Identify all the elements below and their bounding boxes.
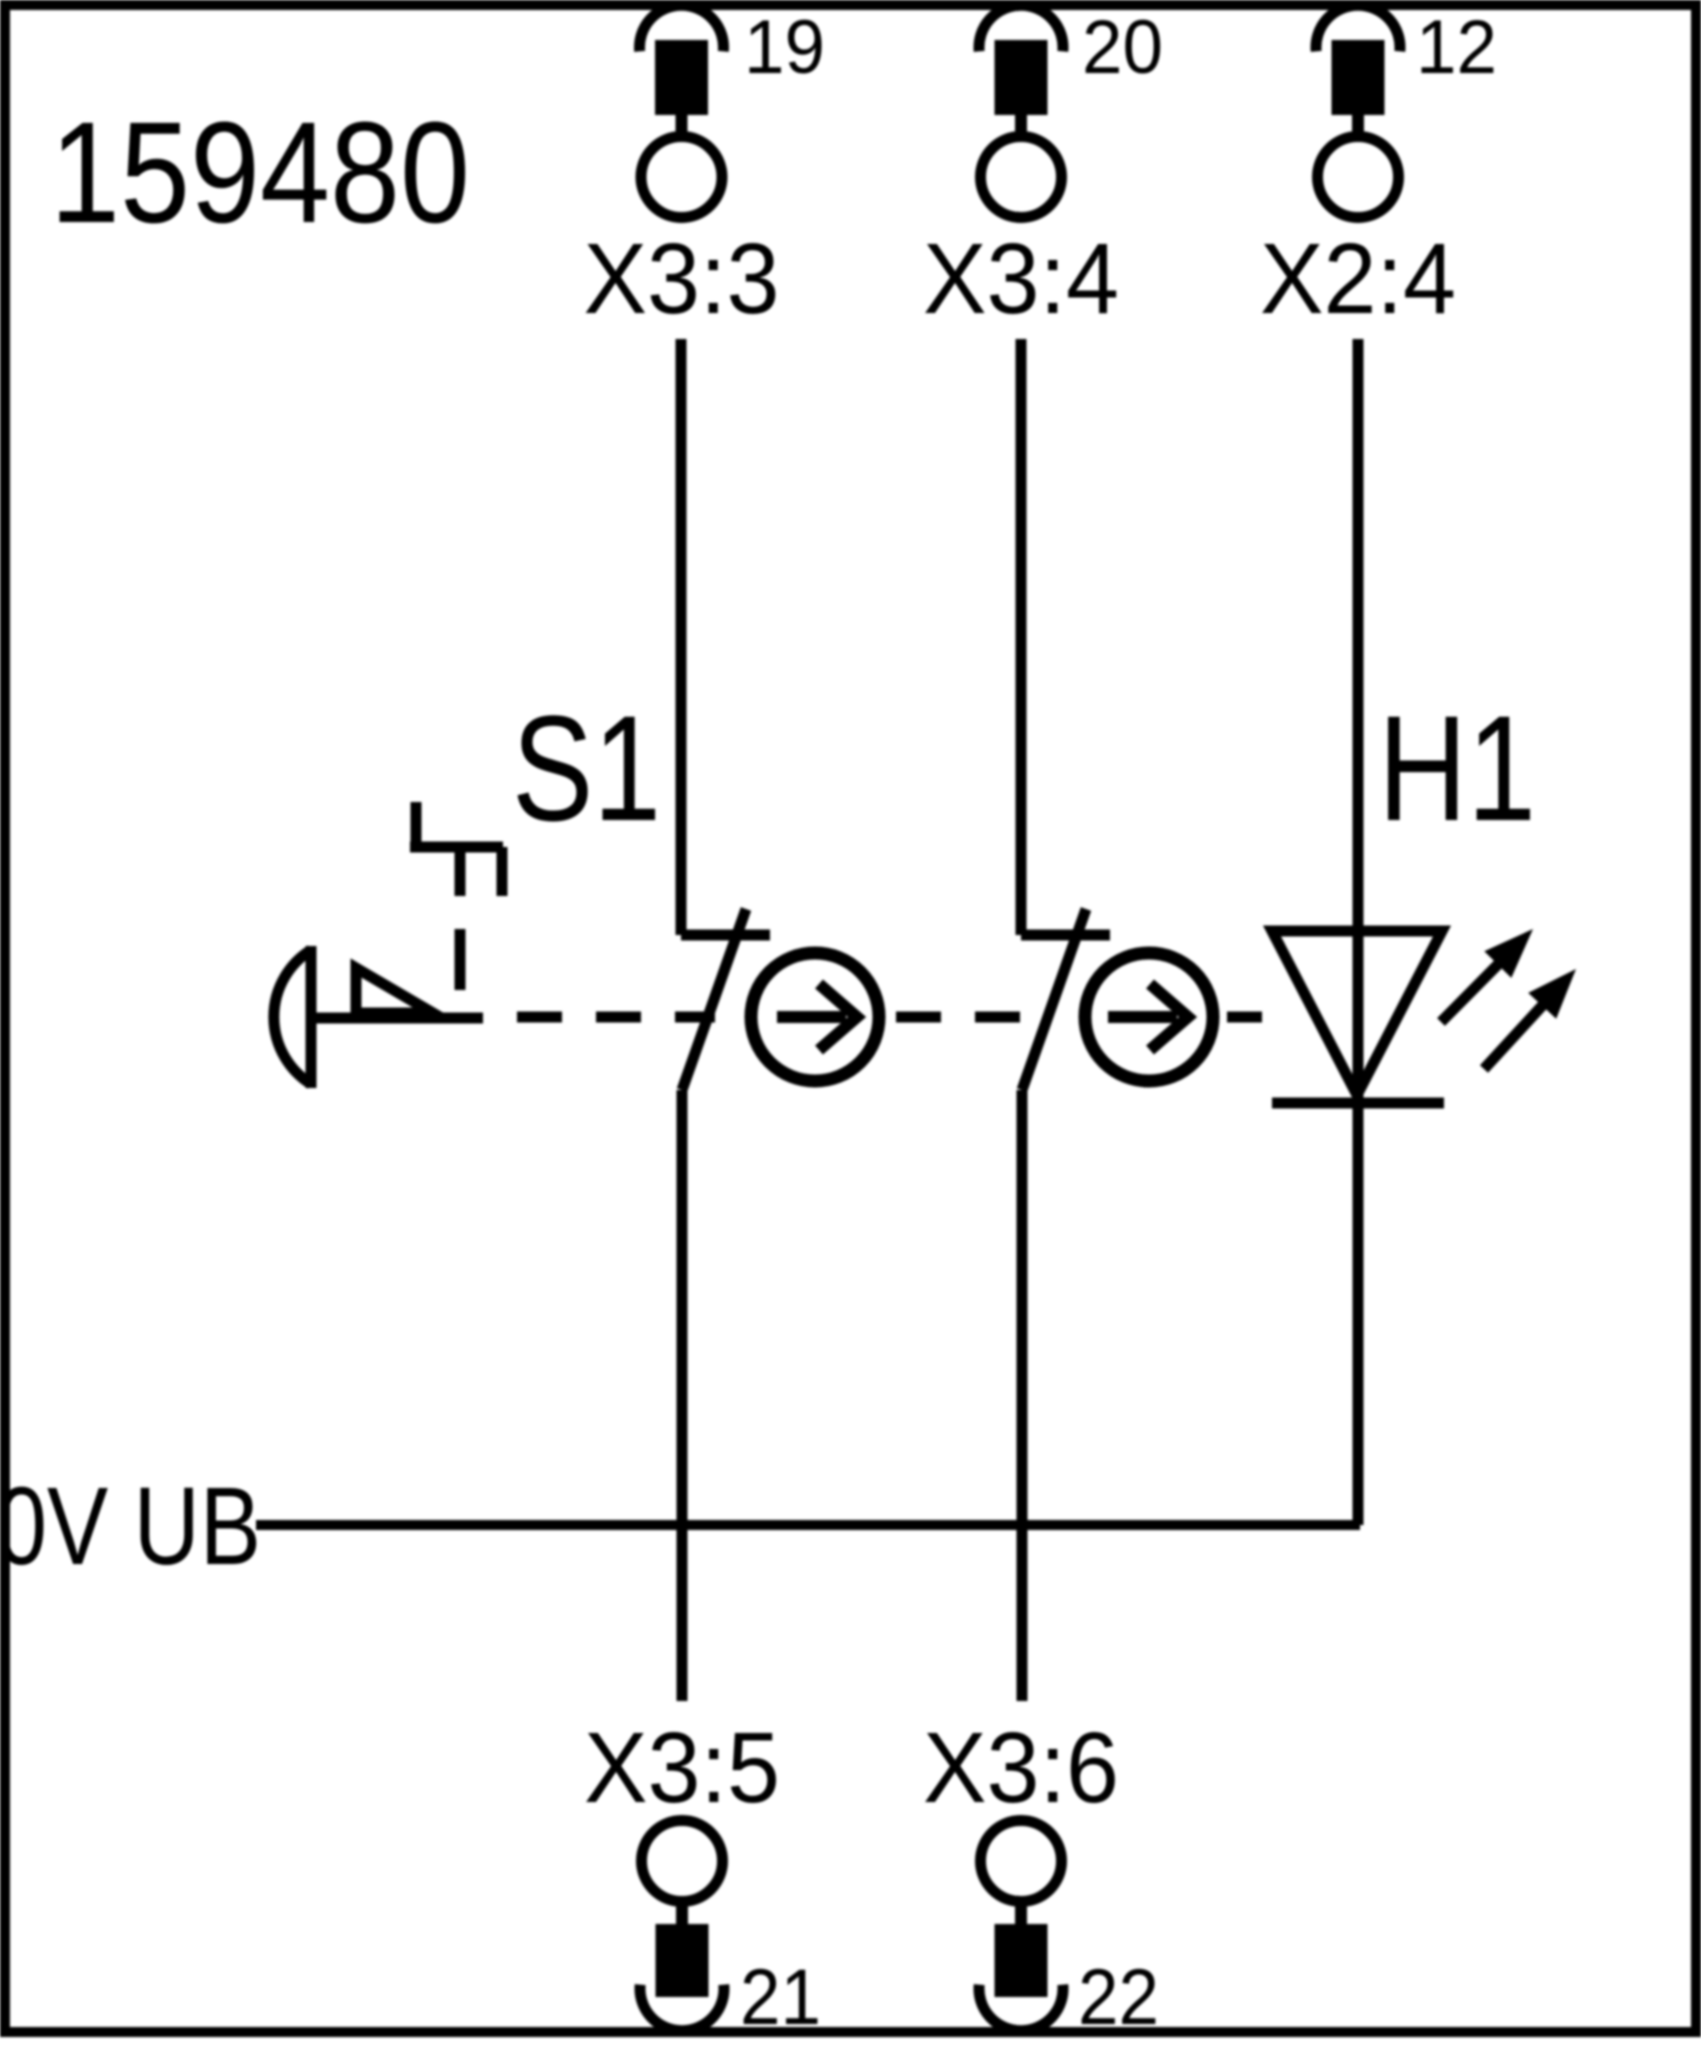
svg-text:22: 22 — [1078, 1952, 1159, 2041]
LED H1 emission arrow 2 — [1484, 969, 1576, 1069]
LED H1 diode triangle — [1272, 931, 1444, 1103]
terminal X3:6 plug symbol — [979, 1821, 1063, 2031]
wire X2:4 to LED H1 to 0V — [1353, 339, 1364, 1525]
LED H1 emission arrow 1 — [1441, 929, 1533, 1022]
mechanical linkage dashed axis — [517, 1012, 1262, 1023]
switch S1 contact 1 (NO) — [681, 909, 770, 1090]
svg-text:X3:3: X3:3 — [584, 223, 780, 335]
wire contact 2 to X3:6 — [1017, 1090, 1028, 1701]
svg-text:X2:4: X2:4 — [1260, 223, 1456, 335]
terminal X2:4 plug symbol — [1316, 5, 1400, 217]
svg-text:X3:6: X3:6 — [923, 1712, 1119, 1824]
svg-text:X3:4: X3:4 — [923, 223, 1119, 335]
wire contact 1 to X3:5 — [677, 1090, 688, 1701]
terminal X3:5 plug symbol — [640, 1821, 724, 2031]
terminal X3:4 plug symbol — [979, 5, 1063, 217]
svg-text:H1: H1 — [1378, 684, 1536, 852]
wire X3:3 to contact 1 — [676, 339, 687, 935]
svg-text:S1: S1 — [512, 684, 661, 852]
terminal X3:3 plug symbol — [640, 5, 724, 217]
svg-text:20: 20 — [1082, 5, 1163, 90]
actuation indicator circle 2 — [1085, 953, 1213, 1081]
mushroom pushbutton actuator — [274, 946, 483, 1088]
mechanical linkage latch to axis (dashed) — [455, 929, 466, 990]
svg-text:21: 21 — [740, 1952, 821, 2041]
detent latch symbol — [410, 802, 503, 896]
actuation indicator circle 1 — [751, 953, 879, 1081]
wire X3:4 to contact 2 — [1016, 339, 1027, 935]
svg-text:0V UB: 0V UB — [0, 1465, 261, 1588]
svg-text:12: 12 — [1416, 5, 1497, 90]
svg-text:19: 19 — [744, 5, 825, 90]
wire 0V UB rail — [256, 1520, 1360, 1530]
svg-text:X3:5: X3:5 — [584, 1712, 780, 1824]
switch S1 contact 2 (NO) — [1021, 909, 1110, 1090]
svg-text:159480: 159480 — [50, 92, 470, 253]
